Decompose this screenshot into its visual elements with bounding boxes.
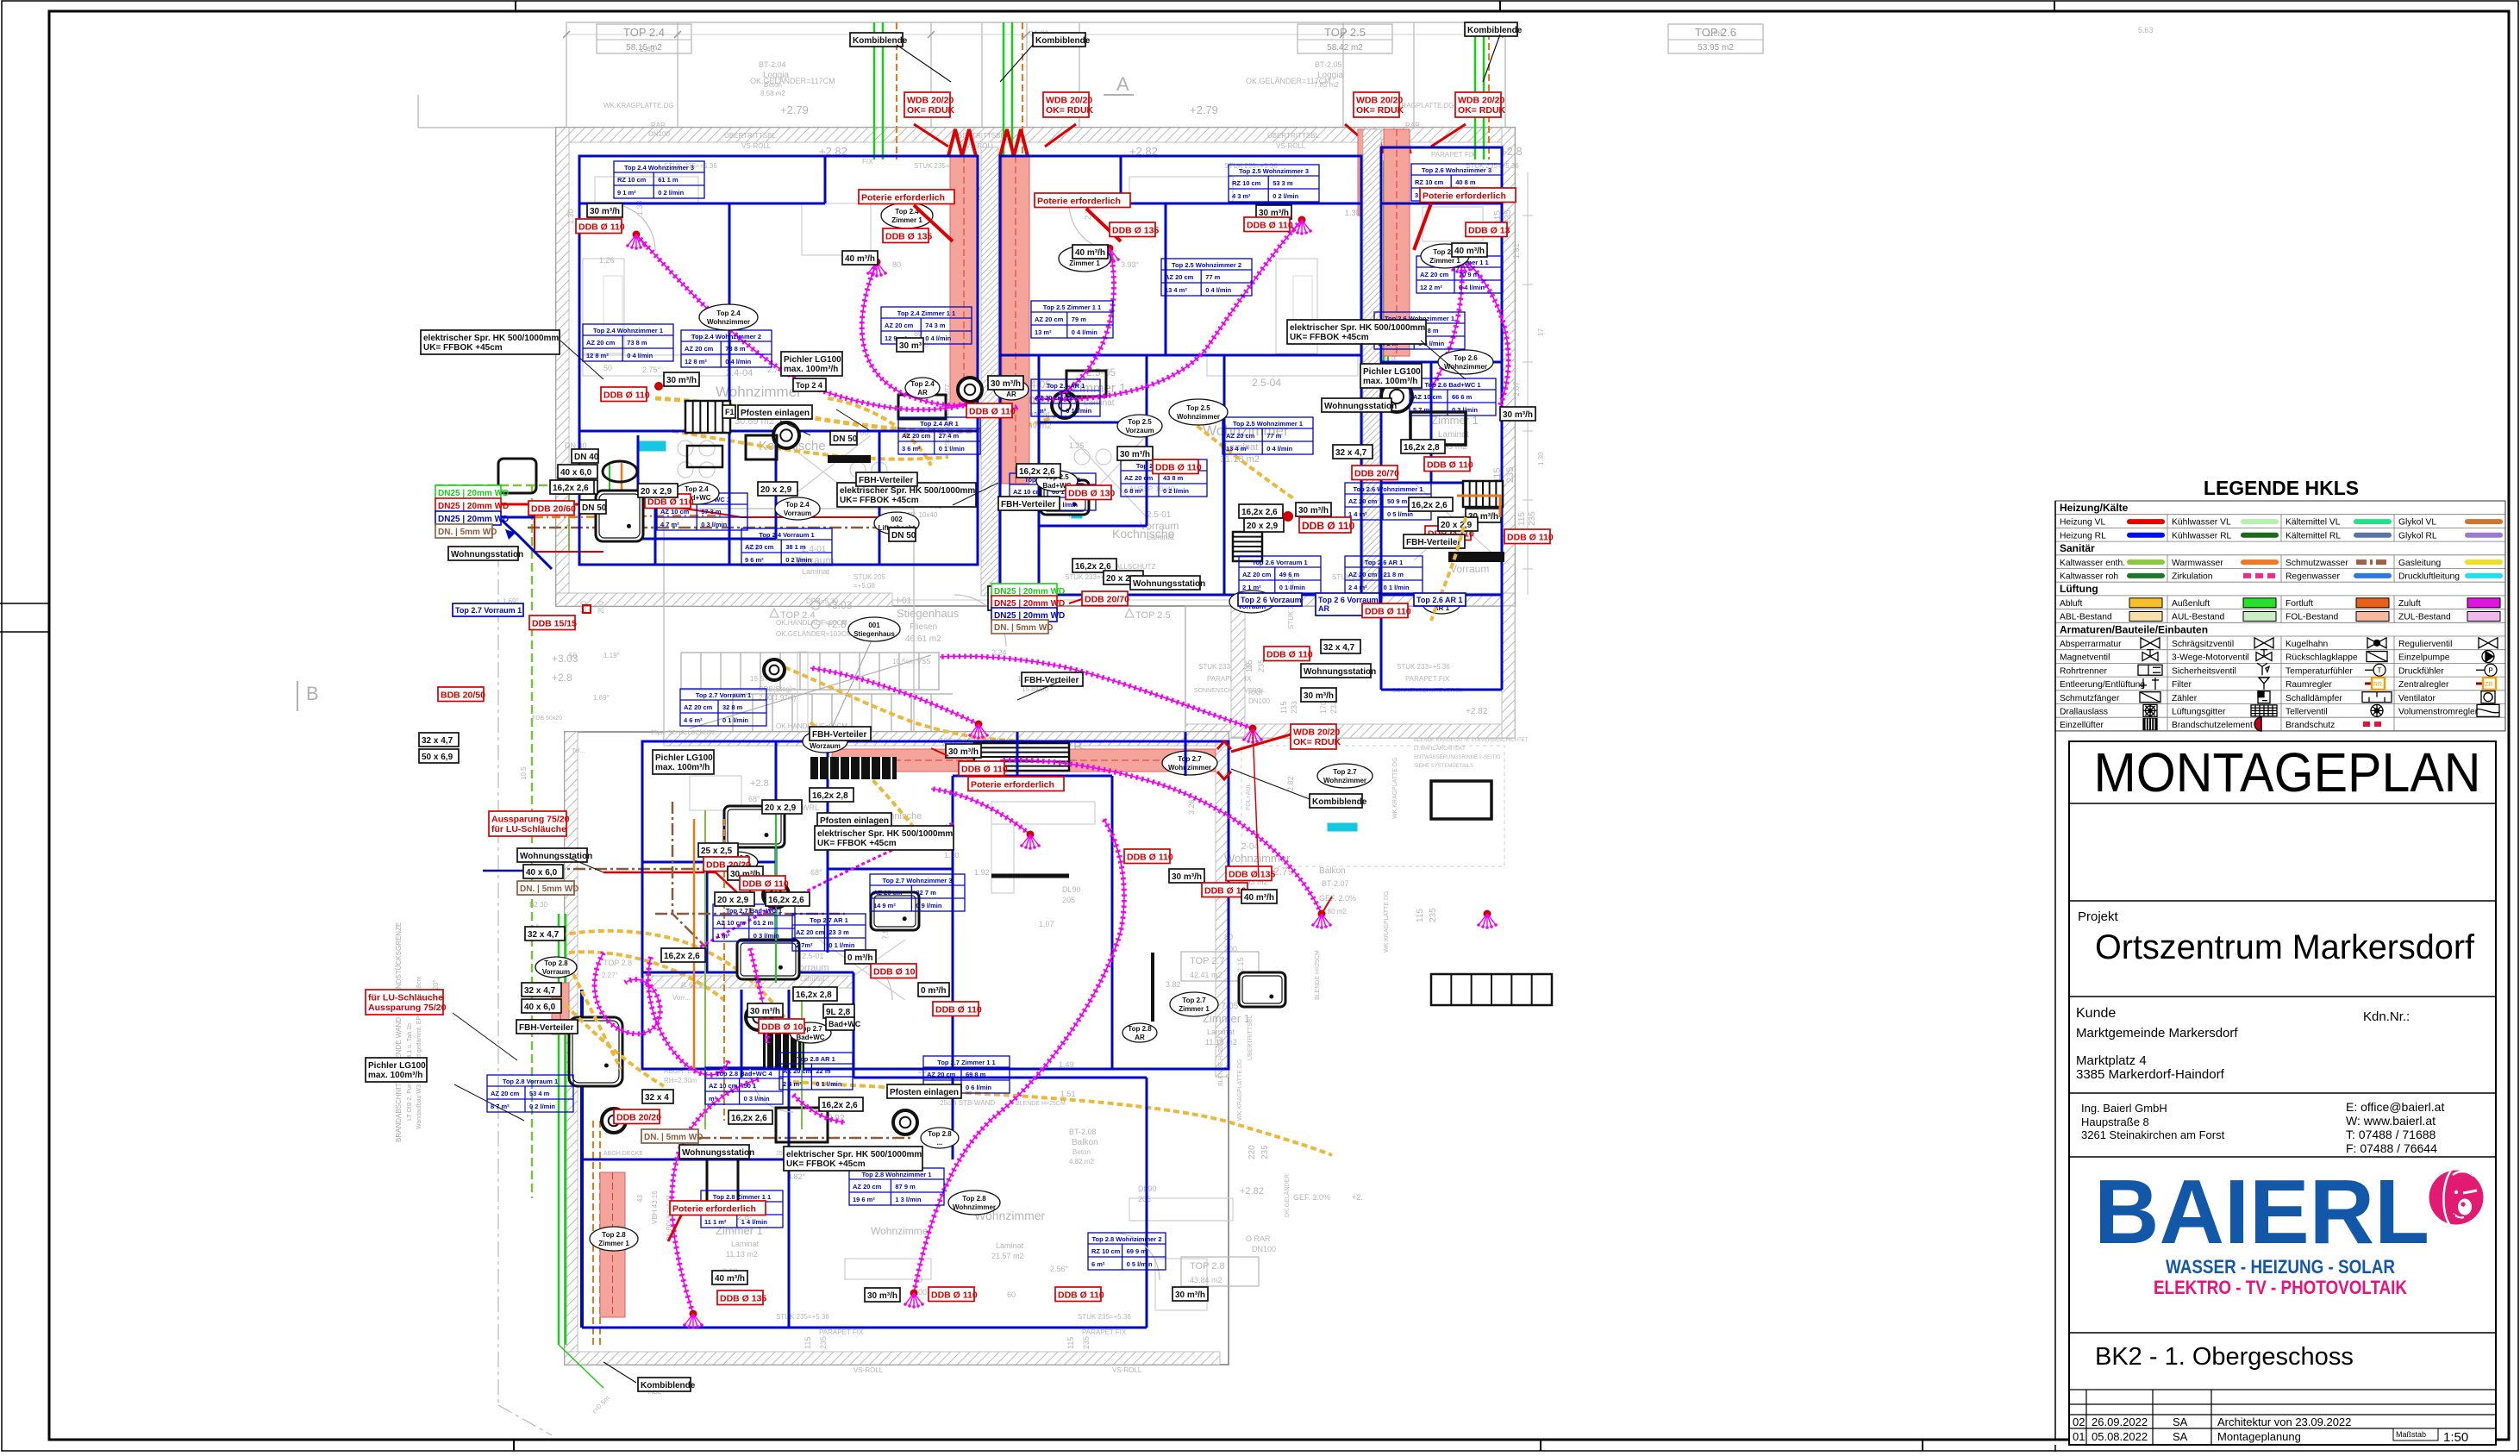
- svg-text:Wohnungsstation: Wohnungsstation: [451, 550, 523, 559]
- svg-text:+2.8: +2.8: [1500, 145, 1523, 158]
- svg-text:AZ 20 cm: AZ 20 cm: [1124, 474, 1154, 482]
- svg-text:m²: m²: [709, 1095, 717, 1103]
- svg-text:Beton: Beton: [764, 81, 782, 89]
- svg-text:30 m³/h: 30 m³/h: [750, 1007, 780, 1016]
- svg-text:Pichler LG100: Pichler LG100: [655, 753, 713, 763]
- svg-text:49 6 m: 49 6 m: [1279, 571, 1300, 578]
- svg-text:235: 235: [1429, 908, 1438, 922]
- svg-text:8.58 m2: 8.58 m2: [760, 90, 785, 97]
- svg-text:0 4 l/min: 0 4 l/min: [1266, 445, 1292, 453]
- svg-text:GEF. 2.0%: GEF. 2.0%: [1319, 894, 1356, 903]
- svg-text:10.5: 10.5: [520, 766, 528, 780]
- svg-text:50 x 6,9: 50 x 6,9: [422, 753, 453, 762]
- svg-text:205: 205: [1138, 1195, 1151, 1203]
- svg-text:40 x 6,0: 40 x 6,0: [526, 868, 558, 878]
- svg-text:UK= FFBOK +45cm: UK= FFBOK +45cm: [786, 1159, 866, 1169]
- svg-text:Aussparung 75/20: Aussparung 75/20: [491, 815, 570, 825]
- svg-text:0 1 l/min: 0 1 l/min: [829, 941, 854, 949]
- svg-text:DDB Ø 110: DDB Ø 110: [603, 391, 650, 401]
- svg-text:40 8 m: 40 8 m: [1455, 178, 1476, 186]
- svg-text:Pichler LG100: Pichler LG100: [1363, 367, 1421, 377]
- svg-text:AZ 10 cm: AZ 10 cm: [1013, 488, 1042, 496]
- svg-text:AZ 20 cm: AZ 20 cm: [853, 1183, 882, 1190]
- svg-text:DDB Ø 130: DDB Ø 130: [1068, 489, 1115, 499]
- svg-text:BAIERL: BAIERL: [2094, 1161, 2429, 1263]
- svg-text:235: 235: [819, 1336, 828, 1349]
- svg-text:DDB Ø 135: DDB Ø 135: [885, 232, 932, 242]
- svg-text:115: 115: [1279, 702, 1288, 714]
- svg-text:ZR: ZR: [2485, 682, 2492, 688]
- svg-text:40 m³/h: 40 m³/h: [845, 254, 875, 264]
- svg-text:TOP 2.5: TOP 2.5: [1135, 610, 1171, 621]
- svg-text:FBH-Verteiler: FBH-Verteiler: [1024, 676, 1079, 685]
- svg-text:DDB Ø 110: DDB Ø 110: [1507, 533, 1554, 543]
- svg-text:32 x 4,7: 32 x 4,7: [1335, 448, 1367, 458]
- svg-text:W: www.baierl.at: W: www.baierl.at: [2346, 1114, 2436, 1128]
- svg-text:Regenwasser: Regenwasser: [2286, 572, 2341, 582]
- svg-text:23 3 m: 23 3 m: [829, 928, 849, 936]
- svg-text:Vorzaum: Vorzaum: [1125, 427, 1154, 434]
- svg-text:3 6 m²: 3 6 m²: [902, 445, 921, 453]
- svg-text:Top 2.8: Top 2.8: [962, 1195, 986, 1203]
- svg-text:DN100: DN100: [648, 130, 670, 138]
- svg-text:16,2x 2,6: 16,2x 2,6: [731, 1114, 767, 1123]
- svg-text:Poterie erforderlich: Poterie erforderlich: [971, 780, 1054, 790]
- svg-text:B: B: [306, 683, 319, 704]
- svg-text:AZ 10 cm: AZ 10 cm: [1413, 393, 1442, 401]
- svg-text:max. 100m³/h: max. 100m³/h: [655, 763, 710, 772]
- svg-text:115: 115: [1416, 909, 1425, 922]
- svg-text:DDB Ø 135: DDB Ø 135: [1112, 226, 1159, 236]
- svg-text:Top 2.8 Vorraum 1: Top 2.8 Vorraum 1: [503, 1078, 558, 1085]
- svg-text:16,2x 2,8: 16,2x 2,8: [812, 791, 848, 801]
- svg-text:20 x 2,9: 20 x 2,9: [765, 803, 797, 813]
- svg-text:1.25: 1.25: [1069, 441, 1085, 450]
- svg-text:Top 2.4: Top 2.4: [685, 485, 709, 493]
- svg-text:UK= FFBOK +45cm: UK= FFBOK +45cm: [1290, 333, 1369, 342]
- svg-text:13 4 m²: 13 4 m²: [1226, 445, 1248, 453]
- svg-text:79 m: 79 m: [1072, 316, 1086, 323]
- svg-text:220: 220: [1247, 1145, 1257, 1159]
- svg-text:Marktplatz 4: Marktplatz 4: [2076, 1053, 2147, 1068]
- svg-text:Zimmer 1: Zimmer 1: [1179, 1005, 1210, 1013]
- svg-text:Poterie erforderlich: Poterie erforderlich: [1037, 197, 1121, 207]
- svg-text:ÜBERTRITTSBL.: ÜBERTRITTSBL.: [724, 132, 778, 140]
- svg-text:max. 100m³/h: max. 100m³/h: [784, 365, 838, 374]
- svg-text:OK= RDUK: OK= RDUK: [1046, 105, 1094, 116]
- svg-text:16,2x 2,6: 16,2x 2,6: [1411, 501, 1448, 510]
- svg-text:Haupstraße 8: Haupstraße 8: [2081, 1115, 2149, 1128]
- svg-text:Wohnungsstation: Wohnungsstation: [1133, 579, 1205, 589]
- svg-text:40 x 6,0: 40 x 6,0: [560, 468, 592, 478]
- svg-text:Glykol RL: Glykol RL: [2398, 531, 2437, 541]
- svg-text:4 3 m²: 4 3 m²: [1232, 192, 1251, 200]
- svg-text:T: 07488 / 71688: T: 07488 / 71688: [2346, 1128, 2436, 1141]
- svg-text:AUL-Bestand: AUL-Bestand: [2172, 613, 2225, 622]
- svg-text:DN. | 5mm WD: DN. | 5mm WD: [520, 884, 578, 894]
- svg-text:FDB 50x20: FDB 50x20: [532, 716, 562, 722]
- svg-text:40 m³/h: 40 m³/h: [1244, 893, 1274, 903]
- svg-text:TOP 2.4: TOP 2.4: [780, 610, 816, 621]
- svg-text:235: 235: [1260, 1145, 1270, 1159]
- svg-text:A: A: [1116, 73, 1129, 95]
- svg-text:WK.KRAGPLATTE.DG: WK.KRAGPLATTE.DG: [1237, 1059, 1243, 1121]
- svg-text:AZ 20 cm: AZ 20 cm: [586, 339, 616, 347]
- svg-text:Kaltwasser enth.: Kaltwasser enth.: [2060, 559, 2125, 568]
- svg-text:58.15 m2: 58.15 m2: [626, 43, 662, 53]
- svg-text:27 4 m: 27 4 m: [939, 432, 960, 440]
- svg-text:SIEHE SYSTEMDETAILS: SIEHE SYSTEMDETAILS: [1414, 764, 1473, 769]
- svg-text:61 1 m: 61 1 m: [658, 176, 678, 184]
- svg-text:Wohnzimmer: Wohnzimmer: [1444, 363, 1487, 371]
- svg-text:20 x 2,9: 20 x 2,9: [1441, 521, 1473, 530]
- svg-text:Top 2.6 Wohnzimmer 3: Top 2.6 Wohnzimmer 3: [1422, 166, 1491, 174]
- svg-text:E: office@baierl.at: E: office@baierl.at: [2346, 1100, 2444, 1114]
- svg-text:RAR: RAR: [651, 122, 666, 129]
- svg-text:Laminat: Laminat: [802, 567, 830, 576]
- svg-text:01: 01: [2073, 1430, 2085, 1443]
- svg-text:25cm STB-WAND: 25cm STB-WAND: [940, 1099, 995, 1107]
- svg-text:AZ 20 cm: AZ 20 cm: [902, 432, 931, 440]
- svg-text:0 1 l/min: 0 1 l/min: [939, 445, 965, 453]
- svg-text:Druckluftleitung: Druckluftleitung: [2398, 572, 2460, 582]
- svg-text:0 6 l/min: 0 6 l/min: [966, 1084, 991, 1091]
- svg-text:30 m³/h: 30 m³/h: [1172, 872, 1202, 882]
- svg-text:2.56°: 2.56°: [1050, 1265, 1069, 1273]
- svg-text:WRL: WRL: [802, 803, 819, 812]
- svg-text:11 1 m²: 11 1 m²: [704, 1218, 727, 1226]
- svg-text:Zimmer 1: Zimmer 1: [716, 1224, 763, 1237]
- svg-text:VS-ROLL: VS-ROLL: [741, 142, 772, 150]
- svg-text:4 7 m²: 4 7 m²: [660, 521, 679, 528]
- svg-text:Balkon: Balkon: [1072, 1138, 1098, 1147]
- svg-text:ABL-Bestand: ABL-Bestand: [2060, 613, 2112, 622]
- svg-text:DN 50: DN 50: [582, 503, 607, 513]
- svg-text:30 m³/h: 30 m³/h: [666, 376, 697, 385]
- svg-text:Top 2.8: Top 2.8: [1128, 1025, 1152, 1033]
- svg-text:SA: SA: [2173, 1430, 2188, 1443]
- svg-text:02: 02: [2073, 1415, 2085, 1428]
- svg-text:73 8 m: 73 8 m: [725, 345, 746, 353]
- svg-text:0 4 l/min: 0 4 l/min: [627, 352, 653, 359]
- svg-text:UK= FFBOK +45cm: UK= FFBOK +45cm: [840, 496, 919, 505]
- svg-text:Brandschutz: Brandschutz: [2286, 721, 2335, 730]
- svg-text:elektrischer Spr. HK 500/1000m: elektrischer Spr. HK 500/1000mm: [840, 486, 975, 496]
- svg-text:Rohrtrenner: Rohrtrenner: [2060, 666, 2108, 676]
- svg-text:5.63: 5.63: [2138, 26, 2154, 34]
- svg-text:elektrischer Spr. HK 500/1000m: elektrischer Spr. HK 500/1000mm: [786, 1150, 922, 1159]
- svg-text:1.51: 1.51: [1512, 243, 1521, 259]
- svg-text:elektrischer Spr. HK 500/1000m: elektrischer Spr. HK 500/1000mm: [1290, 323, 1425, 333]
- svg-text:Top 2.7: Top 2.7: [1182, 997, 1206, 1004]
- svg-text:Zimmer 1: Zimmer 1: [598, 1240, 629, 1247]
- svg-text:32 x 4,7: 32 x 4,7: [528, 930, 560, 940]
- svg-text:0 2 l/min: 0 2 l/min: [1273, 192, 1298, 200]
- svg-text:Top 2.6 Vorraum 1: Top 2.6 Vorraum 1: [1252, 559, 1307, 566]
- svg-text:FIX: FIX: [862, 158, 873, 166]
- svg-text:Warmwasser: Warmwasser: [2172, 559, 2223, 568]
- svg-text:1.07: 1.07: [1039, 920, 1054, 928]
- svg-text:Drallauslass: Drallauslass: [2060, 708, 2108, 717]
- svg-text:+2.8: +2.8: [826, 618, 847, 630]
- svg-text:46.61 m2: 46.61 m2: [905, 634, 941, 644]
- svg-text:RZ 10 cm: RZ 10 cm: [617, 176, 647, 184]
- svg-text:235: 235: [1528, 511, 1537, 526]
- svg-text:Entleerung/Entlüftung: Entleerung/Entlüftung: [2060, 680, 2145, 690]
- svg-text:20 x 2,9: 20 x 2,9: [717, 896, 749, 905]
- svg-text:Bad+WC: Bad+WC: [796, 1034, 824, 1041]
- svg-text:4.82 m2: 4.82 m2: [1069, 1158, 1094, 1165]
- svg-text:Pfosten einlagen: Pfosten einlagen: [820, 816, 889, 826]
- svg-text:170: 170: [1319, 701, 1328, 714]
- svg-text:82 7 m: 82 7 m: [916, 889, 936, 897]
- svg-text:Sanitär: Sanitär: [2060, 542, 2095, 554]
- svg-text:20 x 2,9: 20 x 2,9: [760, 485, 792, 495]
- svg-text:0 1 l/min: 0 1 l/min: [1279, 584, 1305, 591]
- svg-text:DN 40: DN 40: [574, 453, 599, 462]
- svg-text:ZUL-Bestand: ZUL-Bestand: [2398, 613, 2451, 622]
- svg-text:Wohnungsstation: Wohnungsstation: [682, 1148, 754, 1158]
- svg-text:Top 2.4 Zimmer 1 1: Top 2.4 Zimmer 1 1: [897, 309, 955, 317]
- svg-text:Heizung RL: Heizung RL: [2060, 531, 2106, 541]
- svg-text:AR: AR: [1135, 1034, 1145, 1041]
- svg-text:BRANDABSCHNITTSBILDENDE WAND A: BRANDABSCHNITTSBILDENDE WAND AN GRUNDSTÜ…: [395, 922, 403, 1142]
- svg-text:FBH-Verteiler: FBH-Verteiler: [519, 1023, 573, 1033]
- svg-text:AZ 20 cm: AZ 20 cm: [1035, 316, 1064, 323]
- svg-text:9 6 m²: 9 6 m²: [745, 556, 764, 564]
- svg-text:DL90: DL90: [1062, 885, 1081, 894]
- svg-text:25 x 2,5: 25 x 2,5: [701, 847, 733, 856]
- svg-text:Fortluft: Fortluft: [2286, 599, 2313, 609]
- svg-text:16,2x 2,8: 16,2x 2,8: [1404, 443, 1440, 453]
- svg-text:Top 2.5: Top 2.5: [1186, 404, 1210, 412]
- svg-text:RAR: RAR: [1248, 689, 1263, 697]
- svg-text:9 1 m²: 9 1 m²: [617, 189, 636, 197]
- svg-text:Kühlwasser RL: Kühlwasser RL: [2172, 531, 2232, 541]
- svg-text:AZ 20 cm: AZ 20 cm: [927, 1071, 956, 1078]
- svg-text:2.82: 2.82: [1286, 776, 1295, 791]
- svg-text:Heizung/Kälte: Heizung/Kälte: [2060, 502, 2129, 514]
- svg-text:Tellerventil: Tellerventil: [2286, 708, 2328, 717]
- svg-text:SA: SA: [2173, 1415, 2188, 1428]
- svg-text:3.93°: 3.93°: [1121, 260, 1140, 269]
- svg-text:AZ 10 cm: AZ 10 cm: [716, 919, 746, 927]
- svg-text:DDB Ø 135: DDB Ø 135: [720, 1294, 766, 1304]
- svg-text:53 3 m: 53 3 m: [1273, 179, 1293, 187]
- svg-text:Gasleitung: Gasleitung: [2398, 559, 2442, 568]
- svg-text:BK2 - 1. Obergeschoss: BK2 - 1. Obergeschoss: [2095, 1343, 2354, 1371]
- svg-text:1 4 l/min: 1 4 l/min: [741, 1218, 767, 1226]
- svg-text:69 9 m: 69 9 m: [1127, 1247, 1147, 1255]
- svg-text:0 2 l/min: 0 2 l/min: [785, 556, 811, 564]
- svg-text:Top 2.7: Top 2.7: [1178, 755, 1202, 763]
- svg-text:115: 115: [1066, 1337, 1075, 1349]
- svg-text:Stiegenhaus: Stiegenhaus: [854, 630, 895, 638]
- svg-text:73 8 m: 73 8 m: [627, 339, 647, 347]
- svg-text:PARAPET FIX: PARAPET FIX: [819, 1328, 864, 1336]
- svg-text:Zirkulation: Zirkulation: [2172, 572, 2213, 582]
- svg-text:Druckfühler: Druckfühler: [2398, 666, 2444, 676]
- svg-text:1.30: 1.30: [1537, 452, 1545, 466]
- svg-text:80: 80: [892, 260, 901, 269]
- svg-text:DN 50: DN 50: [833, 434, 858, 444]
- svg-text:DN25 | 20mm WD: DN25 | 20mm WD: [438, 502, 509, 511]
- svg-text:3.26: 3.26: [1187, 799, 1196, 815]
- svg-text:2.5-01: 2.5-01: [802, 952, 824, 960]
- svg-text:115: 115: [804, 1337, 812, 1349]
- svg-text:Pfosten einlagen: Pfosten einlagen: [741, 409, 810, 418]
- svg-text:205: 205: [1062, 896, 1075, 904]
- svg-text:T: T: [2378, 666, 2382, 674]
- svg-text:ÜBERTRITTSBL: ÜBERTRITTSBL: [1247, 1015, 1254, 1060]
- svg-text:Top 2.7 Zimmer 1 1: Top 2.7 Zimmer 1 1: [937, 1059, 995, 1066]
- svg-text:AR: AR: [1318, 604, 1329, 613]
- svg-text:Zähler: Zähler: [2172, 694, 2198, 703]
- svg-text:Kühlwasser VL: Kühlwasser VL: [2172, 518, 2231, 528]
- svg-text:Beton: Beton: [1072, 1148, 1091, 1156]
- svg-text:elektrischer Spr. HK 500/1000m: elektrischer Spr. HK 500/1000mm: [423, 334, 559, 343]
- svg-text:Zuluft: Zuluft: [2398, 599, 2421, 609]
- svg-text:Armaturen/Bauteile/Einbauten: Armaturen/Bauteile/Einbauten: [2060, 623, 2208, 635]
- svg-text:115: 115: [1245, 660, 1254, 672]
- svg-text:BT-2.05: BT-2.05: [1315, 60, 1342, 69]
- svg-text:Vorraum: Vorraum: [542, 968, 570, 976]
- svg-text:BLENDE KRAGPLATTE PULVERBESCH: BLENDE KRAGPLATTE PULVERBESCHICHTET: [1414, 738, 1529, 743]
- svg-text:AR: AR: [917, 389, 928, 397]
- svg-text:Top 2 4: Top 2 4: [796, 381, 822, 390]
- svg-text:0 m³/h: 0 m³/h: [921, 986, 946, 996]
- svg-text:I-01: I-01: [897, 597, 912, 606]
- svg-text:7.85 m2: 7.85 m2: [1314, 81, 1339, 89]
- svg-text:Poterie erforderlich: Poterie erforderlich: [672, 1204, 756, 1215]
- svg-text:14 9 m²: 14 9 m²: [873, 902, 896, 909]
- svg-text:Kältemittel VL: Kältemittel VL: [2286, 518, 2341, 528]
- svg-text:Top 2.8 Bad+WC 4: Top 2.8 Bad+WC 4: [716, 1070, 772, 1078]
- svg-text:Top 2.7 Bad+WC 1: Top 2.7 Bad+WC 1: [726, 907, 782, 915]
- svg-text:0 9 l/min: 0 9 l/min: [916, 902, 941, 909]
- svg-text:WDB 20/20: WDB 20/20: [1356, 96, 1403, 106]
- svg-text:Top 2.6 AR 1: Top 2.6 AR 1: [1416, 596, 1463, 604]
- svg-text:Schrägsitzventil: Schrägsitzventil: [2172, 640, 2234, 649]
- svg-text:Magnetventil: Magnetventil: [2060, 653, 2110, 663]
- svg-text:Top 2.8 Wohnzimmer 2: Top 2.8 Wohnzimmer 2: [1092, 1235, 1162, 1243]
- svg-text:Loggia: Loggia: [763, 71, 789, 80]
- svg-text:Kdn.Nr.:: Kdn.Nr.:: [2363, 1009, 2410, 1024]
- svg-text:DN25 | 20mm WD: DN25 | 20mm WD: [438, 515, 509, 524]
- svg-text:DDB Ø 110: DDB Ø 110: [935, 1005, 982, 1015]
- svg-text:Kältemittel RL: Kältemittel RL: [2286, 531, 2341, 541]
- svg-text:AZ 20 cm: AZ 20 cm: [1348, 497, 1378, 505]
- svg-text:3-Wege-Motorventil: 3-Wege-Motorventil: [2172, 653, 2249, 663]
- svg-text:Zimmer 1: Zimmer 1: [891, 216, 922, 224]
- svg-text:Wohnzimmer: Wohnzimmer: [707, 318, 750, 326]
- svg-text:5 7 m²: 5 7 m²: [1413, 406, 1432, 414]
- svg-text:Temperaturfühler: Temperaturfühler: [2286, 666, 2353, 676]
- svg-text:max. 100m³/h: max. 100m³/h: [368, 1071, 422, 1080]
- svg-text:0 4 l/min: 0 4 l/min: [1205, 286, 1231, 294]
- svg-text:O RAR: O RAR: [1246, 1234, 1271, 1243]
- svg-text:0 4 l/min: 0 4 l/min: [925, 334, 951, 342]
- svg-text:Lüftungsgitter: Lüftungsgitter: [2172, 708, 2226, 717]
- svg-text:2 4 m²: 2 4 m²: [783, 1080, 802, 1088]
- svg-text:DN. | 5mm WD: DN. | 5mm WD: [644, 1133, 703, 1142]
- svg-text:2.5-01: 2.5-01: [1147, 510, 1172, 520]
- svg-text:31.18 m2: 31.18 m2: [1220, 454, 1260, 465]
- svg-text:2-04: 2-04: [1241, 842, 1259, 852]
- svg-text:Filter: Filter: [2172, 680, 2192, 690]
- svg-text:Kombiblende: Kombiblende: [1035, 36, 1091, 46]
- svg-text:60: 60: [1007, 1290, 1016, 1299]
- svg-text:Schmutzwasser: Schmutzwasser: [2286, 559, 2348, 568]
- svg-text:Top 2.6: Top 2.6: [1454, 354, 1478, 362]
- svg-text:AZ 10 cm: AZ 10 cm: [709, 1082, 738, 1090]
- svg-text:0 4 l/min: 0 4 l/min: [725, 358, 751, 366]
- svg-text:elektrischer Spr. HK 500/1000m: elektrischer Spr. HK 500/1000mm: [817, 829, 953, 839]
- svg-text:Kombiblende: Kombiblende: [1467, 26, 1523, 35]
- svg-text:1 3 l/min: 1 3 l/min: [895, 1196, 921, 1203]
- svg-text:Top 2.7 Wohnzimmer 3: Top 2.7 Wohnzimmer 3: [883, 877, 953, 884]
- svg-text:12 8 m²: 12 8 m²: [586, 352, 609, 359]
- svg-text:FBH-Verteiler: FBH-Verteiler: [1406, 538, 1460, 547]
- svg-text:Laminat: Laminat: [1207, 1028, 1235, 1036]
- svg-text:0 4 l/min: 0 4 l/min: [1072, 328, 1097, 336]
- svg-text:STUK 205: STUK 205: [854, 573, 885, 581]
- svg-text:AZ 20 cm: AZ 20 cm: [1035, 394, 1064, 402]
- svg-text:4 6 m²: 4 6 m²: [684, 716, 703, 724]
- svg-text:Worzaum: Worzaum: [810, 742, 841, 750]
- svg-text:40 x 6,0: 40 x 6,0: [524, 1003, 556, 1012]
- svg-text:66 6 m: 66 6 m: [1452, 393, 1473, 401]
- svg-text:F: 07488 / 76644: F: 07488 / 76644: [2346, 1141, 2437, 1155]
- svg-text:FBH-Verteiler: FBH-Verteiler: [812, 730, 866, 740]
- svg-text:200: 200: [597, 601, 605, 614]
- svg-text:DDB Ø 110: DDB Ø 110: [742, 879, 789, 890]
- svg-text:50 9 m: 50 9 m: [1387, 497, 1408, 505]
- svg-text:2.07: 2.07: [1512, 381, 1521, 397]
- svg-text:0 3 l/min: 0 3 l/min: [1452, 406, 1478, 414]
- svg-text:STUK 235=+5.36: STUK 235=+5.36: [1078, 1313, 1131, 1321]
- svg-text:68°: 68°: [810, 868, 822, 877]
- svg-text:WDB 20/20: WDB 20/20: [1046, 96, 1092, 106]
- svg-text:0 2 l/min: 0 2 l/min: [529, 1103, 555, 1110]
- svg-text:Top 2.8 AR 1: Top 2.8 AR 1: [797, 1055, 835, 1063]
- svg-text:53 4 m: 53 4 m: [529, 1090, 550, 1097]
- svg-text:2 7m²: 2 7m²: [796, 941, 813, 949]
- svg-text:Top 2.8: Top 2.8: [602, 1231, 626, 1239]
- svg-text:1.92: 1.92: [974, 868, 990, 877]
- svg-text:AZ 20 cm: AZ 20 cm: [1226, 432, 1255, 440]
- svg-text:0 m³/h: 0 m³/h: [847, 953, 872, 963]
- svg-text:FOL-Bestand: FOL-Bestand: [2286, 613, 2339, 622]
- svg-text:1.30: 1.30: [566, 209, 575, 224]
- svg-text:Ortszentrum Markersdorf: Ortszentrum Markersdorf: [2095, 928, 2475, 966]
- svg-text:1.19°: 1.19°: [603, 652, 620, 659]
- svg-text:30 m³/h: 30 m³/h: [1120, 450, 1150, 459]
- svg-text:Top 2.8 Zimmer 1 1: Top 2.8 Zimmer 1 1: [713, 1193, 771, 1201]
- svg-text:+2.8: +2.8: [552, 672, 572, 684]
- svg-text:Top 2.5 Wohnzimmer 3: Top 2.5 Wohnzimmer 3: [1239, 167, 1309, 175]
- svg-text:Top 2.7: Top 2.7: [1333, 768, 1357, 776]
- svg-text:6 8 m²: 6 8 m²: [1124, 487, 1143, 495]
- svg-text:STUK 235=+5.36: STUK 235=+5.36: [776, 1313, 829, 1321]
- svg-text:Top 2.8: Top 2.8: [928, 1130, 952, 1138]
- svg-text:ÜBERTRITTSBL.: ÜBERTRITTSBL.: [953, 132, 1006, 140]
- svg-text:RZ 10 cm: RZ 10 cm: [1091, 1247, 1121, 1255]
- svg-text:16,2x 2,6: 16,2x 2,6: [553, 484, 589, 493]
- svg-text:GEF. 2.0%: GEF. 2.0%: [1293, 1193, 1330, 1202]
- svg-text:DN 50: DN 50: [891, 531, 916, 541]
- svg-text:TOP 2.8: TOP 2.8: [603, 959, 632, 967]
